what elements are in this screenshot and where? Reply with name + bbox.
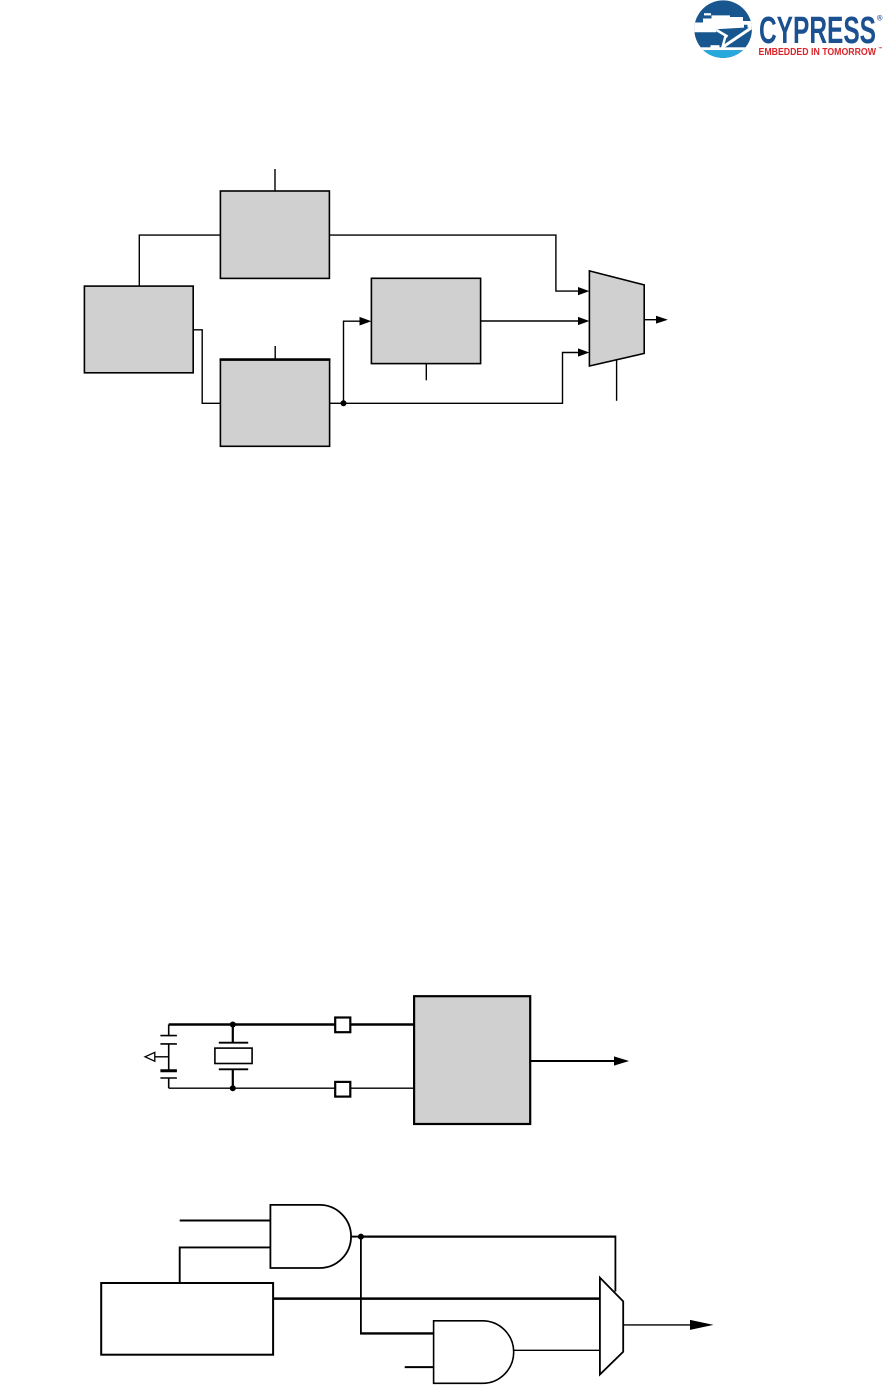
wire: PLL bottom stub bbox=[425, 364, 427, 381]
wire: junction down to AND2 input 1 bbox=[360, 1237, 362, 1334]
wire: mux select stub bbox=[616, 360, 618, 401]
wire: junction right to mux input 3 bbox=[344, 353, 579, 404]
wire: AND2 output to mux bbox=[514, 1349, 600, 1351]
wire: crystal to bottom rail bbox=[232, 1069, 234, 1088]
wire: IMO right to mux input 1 bbox=[329, 235, 578, 291]
wire: mux M2 output bbox=[623, 1324, 691, 1326]
wire: register output to mux (bold) bbox=[273, 1297, 600, 1300]
Cypress logo mark: circle bbox=[690, 0, 756, 59]
block register (white box) bbox=[101, 1283, 273, 1355]
svg-text:®: ® bbox=[877, 14, 883, 23]
arrowhead MCU output bbox=[614, 1056, 629, 1065]
wire: IMO left to ILO top bbox=[139, 235, 220, 286]
block IMO (top box) bbox=[220, 191, 329, 278]
svg-text:CYPRESS: CYPRESS bbox=[759, 10, 876, 52]
gate AND1 bbox=[270, 1205, 351, 1268]
capacitor C2 bbox=[160, 1071, 177, 1078]
node: bottom rail junction bbox=[230, 1085, 236, 1091]
crystal Y1 bbox=[215, 1043, 252, 1070]
arrowhead mux output bbox=[656, 316, 668, 324]
wire: top rail XTAL_IN bbox=[169, 1023, 414, 1025]
wire: below C2 to bottom rail bbox=[168, 1078, 170, 1088]
wire: junction up to PLL input bbox=[344, 321, 360, 403]
arrowhead M2 output bbox=[690, 1320, 714, 1330]
svg-text:™: ™ bbox=[878, 46, 883, 51]
thick top edge of ECO bbox=[220, 358, 331, 361]
wire: MCU clock output bbox=[530, 1060, 614, 1062]
capacitor C1 bbox=[160, 1036, 177, 1044]
wire: mux output bbox=[644, 319, 656, 321]
wire: down into mux top slant bbox=[614, 1236, 616, 1292]
wire: PLL output to mux input 2 bbox=[481, 320, 578, 322]
block PLL (middle box) bbox=[371, 278, 480, 363]
mux M1 (clock select) bbox=[589, 271, 644, 366]
block ILO (left box) bbox=[84, 286, 193, 373]
wire: junction down to crystal bbox=[232, 1025, 234, 1043]
arrowhead mux input 1 bbox=[578, 287, 589, 295]
gate AND2 bbox=[434, 1321, 514, 1384]
wire: AND1 input 2 from register box bbox=[180, 1247, 271, 1283]
block MCU bbox=[414, 996, 530, 1124]
mux M2 bbox=[600, 1278, 623, 1375]
pad P1 (top pin square) bbox=[335, 1018, 350, 1033]
wire: AND2 input 2 bbox=[405, 1366, 434, 1368]
block ECO (bottom box) bbox=[220, 360, 329, 447]
arrowhead PLL input bbox=[360, 317, 372, 326]
wire: between caps bbox=[168, 1044, 170, 1071]
wire: AND1 output stub bbox=[351, 1236, 361, 1238]
arrowhead mux input 3 bbox=[578, 348, 589, 356]
junction node bbox=[341, 400, 347, 406]
arrowhead mux input 2 bbox=[578, 317, 589, 325]
wire: junction right to mux top (bold) bbox=[361, 1235, 616, 1237]
pad P2 (bottom pin square) bbox=[335, 1082, 350, 1097]
wire: ILO right to ECO left bbox=[193, 330, 220, 404]
ground arrow (open triangle) bbox=[145, 1052, 169, 1061]
node: top rail junction bbox=[230, 1022, 236, 1028]
wire: ECO top stub bbox=[274, 346, 276, 360]
wire: bottom rail XTAL_OUT bbox=[169, 1087, 414, 1089]
wire: to AND2 input 1 (bold) bbox=[360, 1332, 434, 1334]
junction node after AND1 bbox=[358, 1234, 364, 1240]
wire: left branch vertical bbox=[168, 1025, 170, 1036]
svg-text:EMBEDDED IN TOMORROW: EMBEDDED IN TOMORROW bbox=[759, 47, 877, 58]
wire: ECO output to junction bbox=[330, 402, 344, 404]
wire: IMO top stub bbox=[274, 169, 276, 191]
wire: AND1 input 1 bbox=[180, 1220, 271, 1222]
